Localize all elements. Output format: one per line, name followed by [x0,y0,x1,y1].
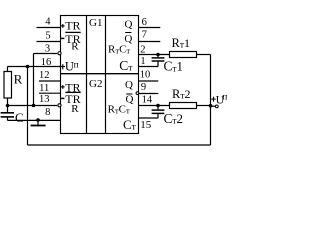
svg-text:Q: Q [124,18,132,30]
wire Ct1 bottom lead [157,62,159,67]
wire right supply rail [210,55,212,146]
svg-text:7: 7 [142,29,147,40]
svg-text:п: п [222,93,227,103]
svg-text:8: 8 [45,107,50,118]
capacitor Ct2 top plate [152,109,165,111]
svg-text:3: 3 [45,43,50,54]
svg-text:4: 4 [45,17,51,28]
wire pin 15 [139,117,159,119]
node Ct1 tap dot on pin2 wire [156,53,160,57]
terminal +Un circle [215,105,218,108]
capacitor C top plate [1,112,14,114]
svg-text:2: 2 [140,44,145,55]
svg-text:TR: TR [65,19,80,33]
IC internal divider between G1 and G2 [61,73,139,75]
wire +Un terminal stub [211,105,216,107]
resistor R vertical body [4,72,12,99]
wire pin 8 ground wire [8,119,61,121]
wire pin 12 stub [39,80,61,82]
svg-text:16: 16 [41,57,52,68]
wire pin 3 [34,53,58,55]
IC DD1 dual monostable body outline [61,16,139,134]
node rail33 pin13 junction dot [32,104,36,108]
svg-text:G1: G1 [89,17,102,29]
label +Un pin16 plus [61,64,66,69]
svg-text:11: 11 [39,83,49,94]
wire Ct2 bottom lead [157,114,159,118]
ground stub [37,120,39,124]
svg-text:RтCт: RтCт [108,44,130,56]
wire pin 9 stub [139,93,159,95]
wire pin 2 to Rt1 [139,54,170,56]
label +Un supply terminal plus [211,97,215,102]
svg-text:R: R [71,103,79,115]
wire capacitor C bottom lead [7,118,9,121]
svg-text:Q: Q [126,94,134,106]
IC internal divider right column [105,16,107,134]
svg-text:15: 15 [140,119,152,131]
label +TR section2 plus [61,85,65,89]
wire rail joining pin 3 and pin 13 [33,54,35,106]
node ground junction dot [36,118,40,122]
capacitor Ct1 top plate [152,57,165,59]
pin 9 inversion bubble [136,92,139,95]
ground bar [31,125,46,127]
label -TR section1 minus [61,37,64,39]
svg-text:9: 9 [141,82,146,93]
capacitor Ct1 bottom plate [152,60,165,62]
node Rt2 right rail junction dot [209,104,213,108]
pin 13 inversion bubble [58,104,61,107]
pin 3 inversion bubble [58,52,61,55]
wire Rt1 to right rail [197,54,211,56]
resistor Rt1 body [170,52,197,58]
wire pin 5 stub [37,41,61,43]
svg-text:5: 5 [45,30,50,41]
label -TR overline section2 [65,91,80,93]
svg-text:12: 12 [39,70,50,81]
svg-text:RтCт: RтCт [108,104,130,116]
IC internal divider left column [86,16,88,134]
wire pin 1 [139,66,159,68]
label +TR section1 plus [61,24,65,28]
node R C pin13 junction dot [6,104,10,108]
label Q-bar overline pin9 [126,93,132,95]
node Ct2 tap dot on pin14 wire [156,104,160,108]
wire pin 4 stub [37,27,61,29]
svg-text:Q: Q [125,79,133,91]
wire resistor R bottom lead to node [7,98,9,112]
svg-text:6: 6 [142,17,147,28]
wire pin 6 stub [139,27,161,29]
resistor Rt2 body [170,103,197,109]
wire pin 11 stub [39,92,61,94]
wire Ct1 top lead from node [157,55,159,58]
svg-text:R: R [14,72,23,87]
wire resistor R top lead [7,67,9,72]
wire pin 10 stub [139,80,159,82]
svg-text:13: 13 [39,94,50,105]
node supply tap dot on pin16 wire [26,65,30,69]
wire pin 14 to Rt2 [139,105,170,107]
svg-text:G2: G2 [89,78,102,90]
wire pin 7 stub [139,41,161,43]
svg-text:U: U [65,60,74,74]
label -TR overline section1 [65,31,80,33]
wire bottom supply rail [28,144,211,146]
wire pin 16 [8,66,61,68]
svg-text:п: п [74,60,79,70]
wire pin 13 [8,105,58,107]
svg-text:C: C [15,110,24,125]
svg-text:R: R [71,41,79,53]
svg-text:14: 14 [142,95,153,106]
svg-text:10: 10 [140,69,151,80]
svg-text:1: 1 [140,56,145,67]
wire Rt2 to right rail [197,105,211,107]
label -TR section2 minus [61,97,64,99]
wire rail from supply dot down to bottom rail [27,67,29,146]
capacitor C bottom plate [1,116,14,118]
wire Ct2 top lead from node [157,106,159,110]
capacitor Ct2 bottom plate [152,112,165,114]
label Q-bar overline pin7 [125,32,131,34]
